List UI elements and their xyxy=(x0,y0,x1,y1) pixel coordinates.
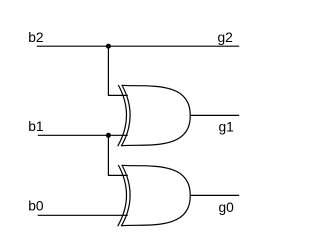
svg-text:g0: g0 xyxy=(219,200,235,215)
svg-text:b1: b1 xyxy=(28,119,43,134)
node junction on b2 xyxy=(106,44,111,49)
svg-text:b0: b0 xyxy=(28,199,44,214)
svg-text:g1: g1 xyxy=(219,119,234,134)
node junction on b1 xyxy=(106,133,111,138)
wire vertical from b1 junction to U2 top input xyxy=(108,135,127,175)
xor gate U1 (g1 = b2 xor b1) xyxy=(118,85,191,146)
wire b1 xyxy=(38,134,128,136)
wire g0 output xyxy=(190,194,239,196)
wire b2 to g2 (horizontal net) xyxy=(37,45,239,47)
wire g1 output xyxy=(190,114,239,116)
svg-text:g2: g2 xyxy=(218,30,233,45)
svg-text:b2: b2 xyxy=(28,30,43,45)
wire b0 xyxy=(38,214,128,216)
xor gate U2 (g0 = b1 xor b0) xyxy=(118,165,191,226)
wire vertical from b2 junction to U1 top input xyxy=(108,46,127,95)
